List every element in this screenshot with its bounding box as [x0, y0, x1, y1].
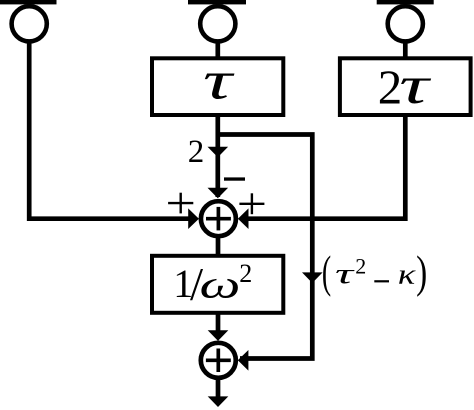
svg-text:τ: τ [203, 51, 235, 111]
ceiling bar right input [377, 0, 434, 4]
input circle left [12, 6, 47, 41]
sum junction S2 [201, 343, 236, 378]
ceiling bar left input [0, 0, 57, 4]
wire 2tau box down into S1 right [246, 115, 405, 219]
plus inside S2 [206, 349, 231, 373]
wire S2 output down [216, 378, 221, 398]
block tau [152, 58, 283, 115]
svg-text:2: 2 [355, 254, 366, 279]
svg-text:(: ( [322, 249, 331, 298]
block 1/omega^2 [152, 256, 283, 313]
wire left input down and into sum junction S1 [29, 42, 190, 219]
ceiling bar middle input [188, 0, 246, 4]
wire tau box down to sum S1 [215, 115, 220, 197]
wire S1 down to omega box [216, 237, 221, 256]
wire right circle to 2tau box [403, 42, 408, 59]
svg-text:τ: τ [399, 55, 431, 114]
input circle right [388, 6, 423, 41]
label plus left of S1 [168, 193, 193, 214]
arrowhead into S2 top [208, 330, 229, 341]
sum junction S1 [201, 201, 236, 236]
input circle middle [200, 6, 235, 41]
svg-text:κ: κ [398, 259, 417, 291]
svg-text:τ: τ [335, 258, 355, 289]
arrowhead output [208, 396, 229, 407]
svg-text:): ) [416, 247, 427, 297]
svg-text:ω: ω [200, 262, 241, 306]
arrowhead into S1 left [188, 208, 199, 229]
label plus right of S1 [239, 193, 264, 214]
wire omega box down to sum S2 [216, 313, 221, 332]
label minus in (tau^2 - kappa) [374, 280, 389, 282]
arrowhead into S2 right [238, 350, 249, 371]
wire middle circle to tau box [215, 42, 220, 59]
label minus sign [224, 177, 245, 180]
arrowhead mid on tau line [208, 147, 229, 158]
arrowhead into S1 right [238, 208, 249, 229]
arrowhead mid on branch vertical [302, 272, 323, 283]
arrowhead into S1 top [208, 188, 229, 199]
svg-text:2: 2 [239, 259, 252, 288]
plus inside S1 [206, 207, 231, 231]
wire branch from tau output to the right [218, 135, 312, 359]
svg-text:2: 2 [188, 134, 205, 170]
block 2tau [340, 58, 471, 115]
